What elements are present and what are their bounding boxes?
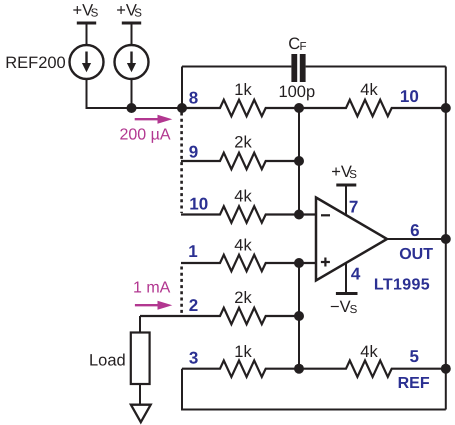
junction dot sources [127, 103, 137, 113]
svg-text:4k: 4k [360, 81, 378, 99]
supply bar +VS pin7 [336, 184, 356, 187]
svg-text:F: F [300, 41, 307, 53]
svg-text:S: S [350, 304, 358, 316]
svg-text:1 mA: 1 mA [133, 280, 171, 297]
svg-text:8: 8 [189, 89, 198, 108]
svg-text:2k: 2k [234, 134, 252, 152]
dotted link nodes 1-2 [180, 267, 183, 315]
junction dot row F bus [294, 364, 304, 374]
svg-text:100p: 100p [278, 83, 315, 101]
resistor 2k row E [140, 308, 299, 324]
svg-text:4: 4 [351, 265, 361, 284]
svg-text:1k: 1k [234, 343, 252, 361]
svg-text:4k: 4k [360, 343, 378, 361]
wire stem supply1 to source1 [86, 23, 88, 46]
dotted link nodes 8-9-10 [180, 113, 183, 214]
resistor 4k row D [181, 255, 316, 271]
svg-text:C: C [288, 35, 300, 53]
svg-text:OUT: OUT [399, 246, 433, 263]
resistor 1k row A [182, 100, 299, 116]
svg-text:LT1995: LT1995 [374, 277, 430, 294]
svg-text:Load: Load [89, 351, 126, 369]
svg-text:1k: 1k [234, 81, 252, 99]
node 8 junction dot [177, 103, 187, 113]
label -VS pin4 [330, 298, 358, 316]
svg-text:S: S [349, 169, 357, 181]
svg-text:REF: REF [398, 375, 430, 392]
junction dot row A bus [294, 103, 304, 113]
op-amp plus sign [321, 258, 330, 267]
wire stem supply2 to source2 [131, 23, 133, 46]
label 1 mA current arrow [135, 301, 172, 310]
node 5 junction dot [441, 364, 451, 374]
svg-text:6: 6 [410, 221, 419, 240]
junction dot noninverting input [294, 258, 304, 268]
svg-text:10: 10 [189, 195, 208, 214]
svg-text:S: S [134, 8, 142, 20]
svg-text:1: 1 [188, 242, 197, 261]
junction dot row B bus [294, 156, 304, 166]
current source I2 [115, 45, 149, 79]
svg-text:2: 2 [189, 296, 198, 315]
output junction dot [441, 234, 451, 244]
resistor 4k row C [181, 206, 316, 222]
svg-text:−V: −V [330, 298, 351, 316]
svg-text:5: 5 [410, 347, 419, 366]
supply bar +VS 1 [77, 22, 96, 25]
svg-text:2k: 2k [234, 289, 252, 307]
wire source1 down [87, 79, 132, 108]
wire feedback top right segment [306, 66, 446, 68]
label CF [288, 35, 306, 53]
svg-text:200 µA: 200 µA [120, 126, 171, 143]
label +VS pin7 [331, 163, 357, 181]
svg-text:S: S [91, 8, 99, 20]
wire source2 down [131, 79, 133, 108]
svg-text:9: 9 [189, 143, 198, 162]
wire bottom loop [182, 369, 446, 410]
capacitor CF [291, 54, 305, 82]
svg-text:4k: 4k [234, 237, 252, 255]
op-amp minus sign [321, 214, 330, 216]
resistor 1k row F [182, 361, 299, 377]
wire load stem bottom [139, 384, 141, 405]
wire supply bus to node 8 [132, 107, 183, 109]
node 10 right junction dot [441, 103, 451, 113]
wire right vertical rail [445, 67, 447, 410]
label +VS supply 1 [73, 2, 99, 20]
supply bar -VS pin4 [336, 292, 358, 295]
svg-text:REF200: REF200 [5, 54, 66, 72]
pin 7 supply stem [345, 185, 347, 215]
wire feedback top left segment [182, 66, 291, 68]
current source I1 [70, 45, 104, 79]
load resistor box [131, 333, 150, 385]
pin 4 supply stem [345, 263, 347, 293]
resistor 4k row F [299, 361, 446, 377]
wire noninverting bus [298, 263, 300, 369]
resistor 4k row A [299, 100, 446, 116]
ground symbol [131, 405, 151, 423]
wire load stem top [139, 316, 141, 333]
svg-text:10: 10 [400, 87, 419, 106]
junction dot inverting input [294, 210, 304, 220]
resistor 2k row B [181, 153, 299, 169]
wire feedback left vertical from node 8 [181, 67, 183, 109]
junction dot row E bus [294, 311, 304, 321]
label 200 uA current arrow [135, 115, 173, 124]
op-amp U1 LT1995 [316, 198, 387, 281]
supply bar +VS 2 [122, 22, 141, 25]
svg-text:4k: 4k [234, 188, 252, 206]
wire output [387, 238, 446, 240]
wire inverting bus [298, 108, 300, 215]
label +VS supply 2 [116, 2, 142, 20]
svg-text:7: 7 [349, 197, 358, 216]
svg-text:3: 3 [189, 349, 198, 368]
